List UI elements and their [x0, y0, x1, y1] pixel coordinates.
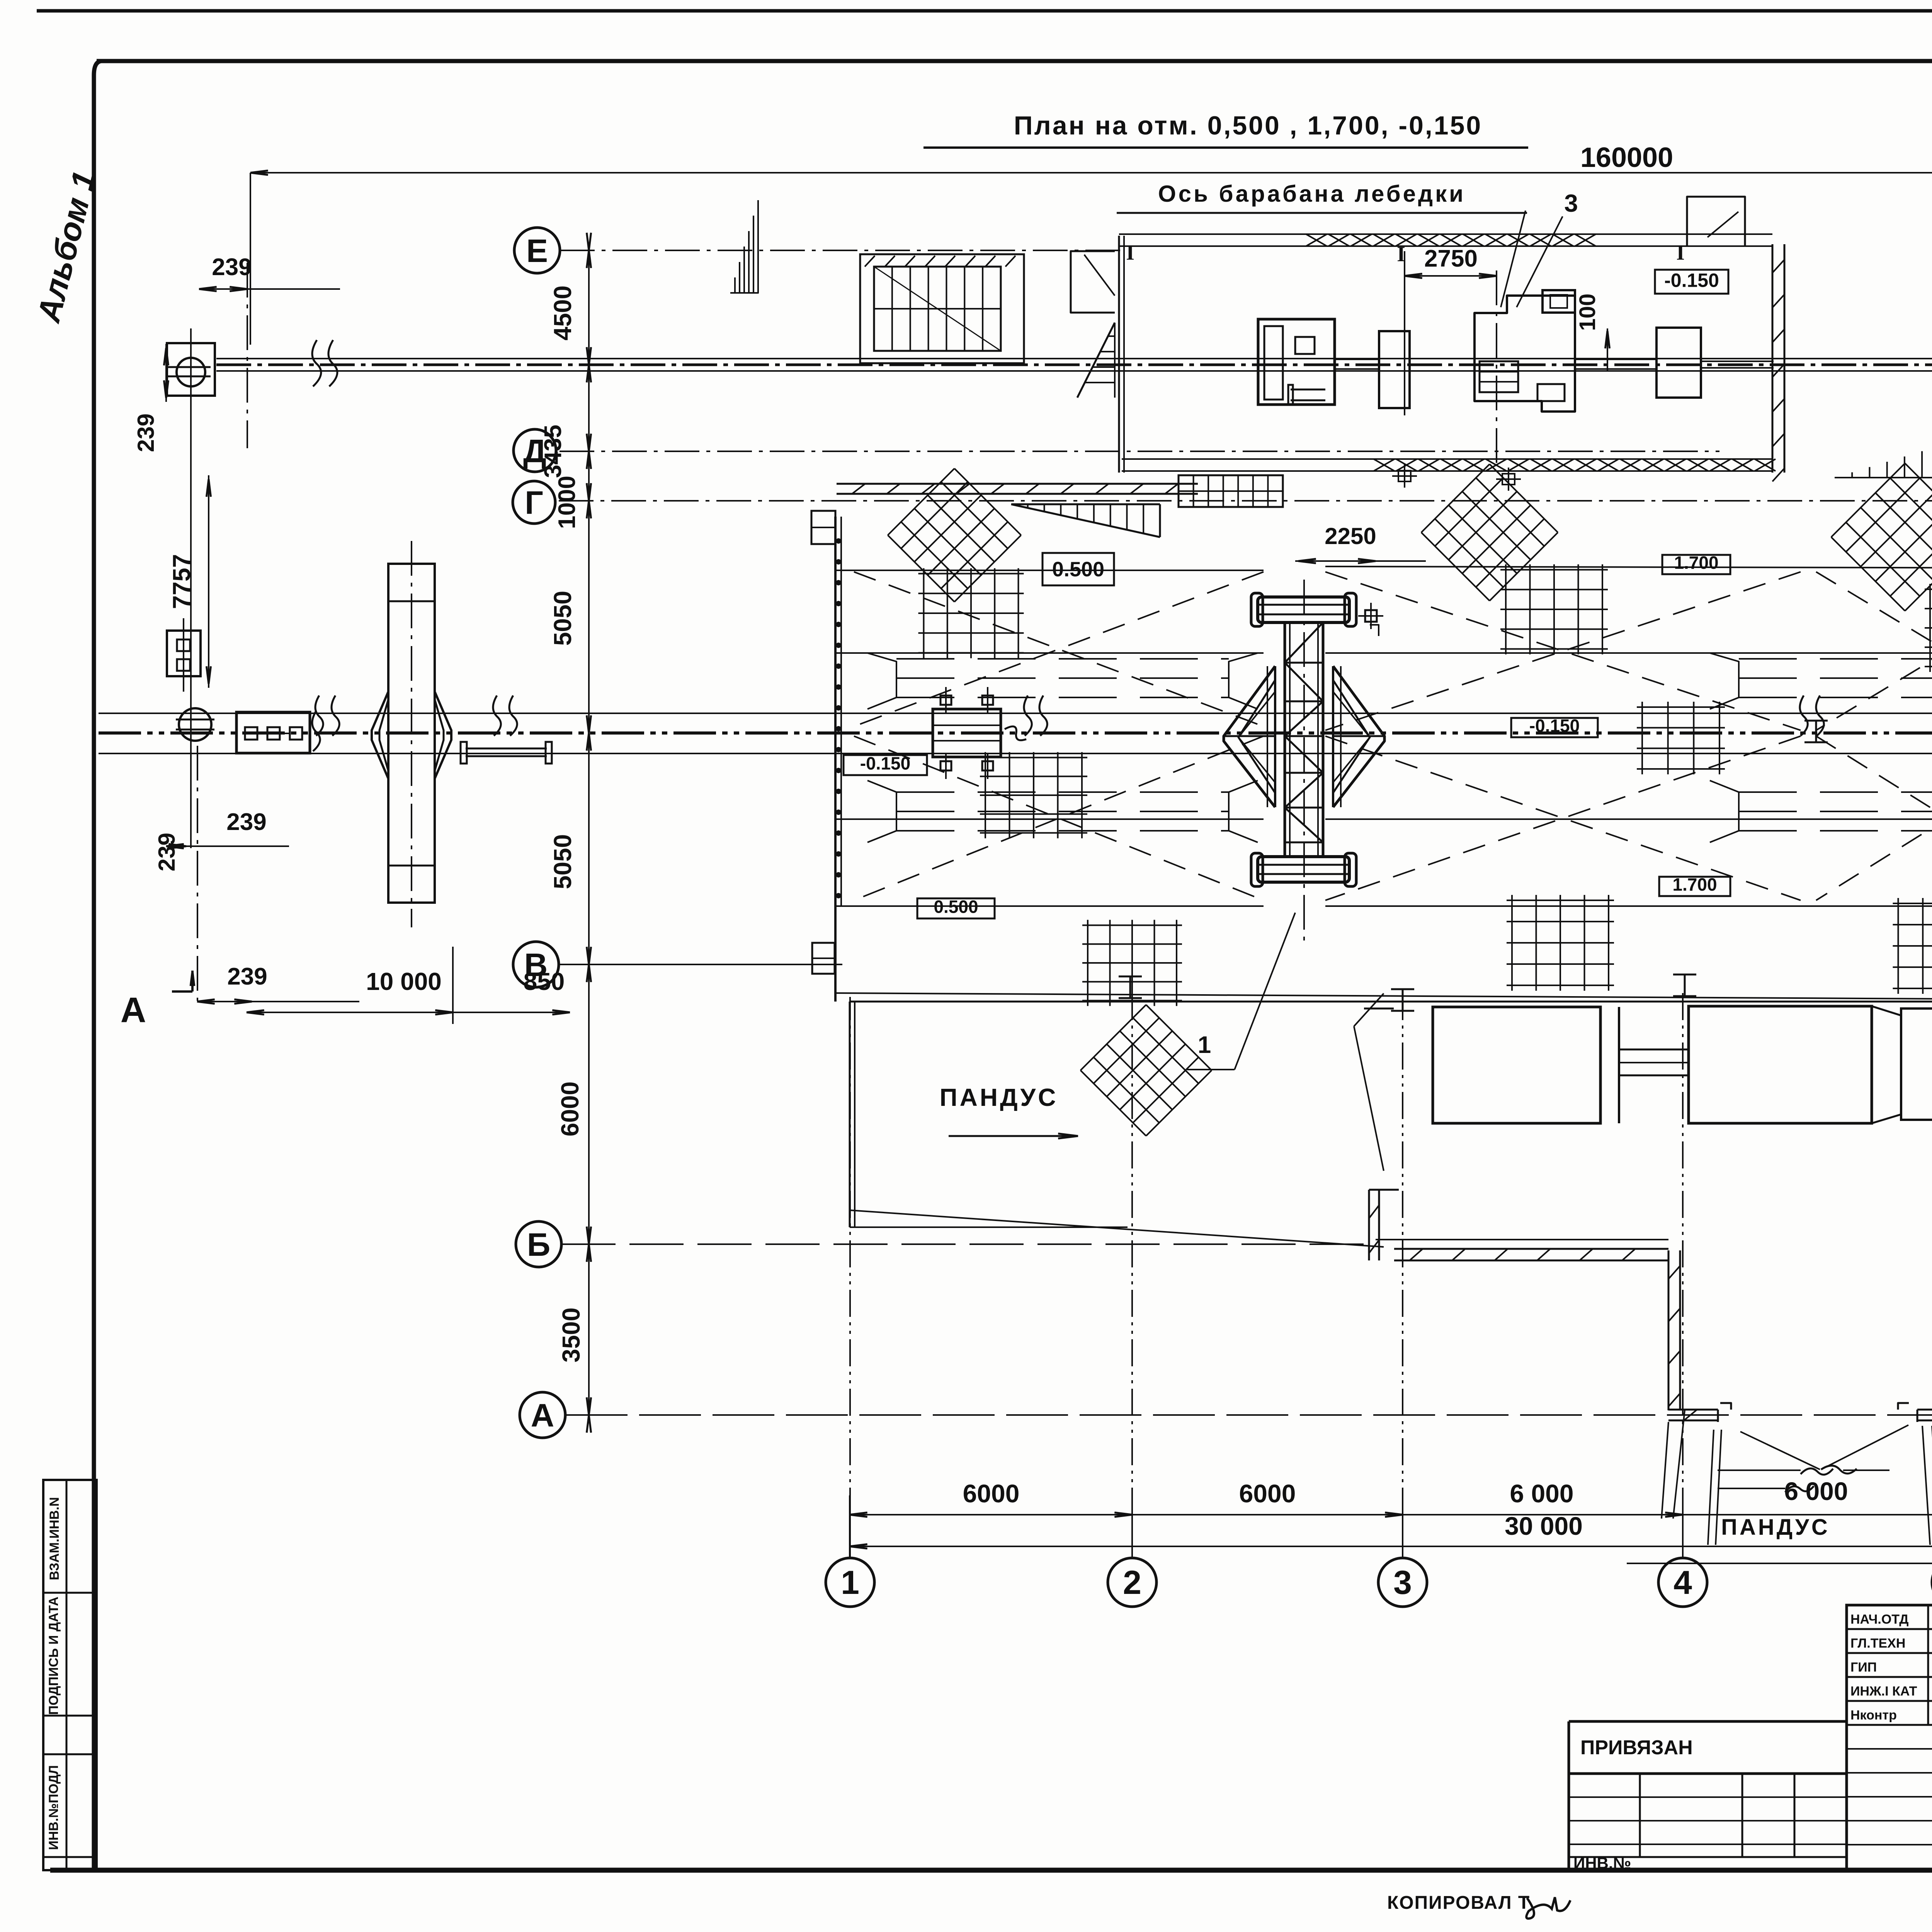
main rail left anchor circle — [179, 708, 211, 741]
svg-text:ГИП: ГИП — [1850, 1660, 1877, 1675]
triangle ramp 1 — [1011, 503, 1160, 505]
svg-text:239: 239 — [154, 833, 180, 871]
axis circle 4 — [1658, 1558, 1707, 1607]
winch house top wall — [1119, 233, 1772, 235]
svg-text:НАЧ.ОТД: НАЧ.ОТД — [1850, 1612, 1908, 1627]
svg-text:30 000: 30 000 — [1505, 1512, 1583, 1540]
grid patch 2 — [980, 752, 1087, 838]
paper top edge — [37, 9, 1932, 13]
grid patch 6 — [1925, 584, 1932, 672]
G axis wall band — [837, 483, 1198, 485]
svg-text:239: 239 — [227, 963, 267, 990]
svg-text:6 000: 6 000 — [1510, 1479, 1573, 1508]
svg-text:3: 3 — [1564, 189, 1578, 217]
truck trailer — [1433, 1007, 1600, 1123]
dim row 6000 x4 — [850, 1514, 1932, 1515]
axis circle Б — [516, 1221, 561, 1267]
dashed cross bay2 upper — [1325, 572, 1801, 730]
svg-text:1.700: 1.700 — [1672, 874, 1717, 895]
tower core — [1284, 622, 1286, 857]
trolley cart — [933, 709, 1001, 757]
svg-text:100: 100 — [1575, 294, 1600, 331]
svg-text:ПОДПИСЬ И ДАТА: ПОДПИСЬ И ДАТА — [46, 1597, 61, 1715]
svg-text:ПАНДУС: ПАНДУС — [1721, 1515, 1830, 1540]
label -0.150 left — [844, 755, 927, 775]
conveyor band lower-left — [896, 791, 1229, 793]
svg-text:3: 3 — [1393, 1564, 1412, 1601]
axis circle В — [513, 942, 559, 987]
svg-text:6000: 6000 — [963, 1479, 1020, 1508]
column marks D axis — [1398, 471, 1411, 481]
shield box left — [236, 712, 310, 753]
bay right corner foot — [1917, 1409, 1932, 1411]
svg-text:-0.150: -0.150 — [1529, 716, 1580, 736]
svg-text:6000: 6000 — [556, 1082, 584, 1136]
dashed cross bay2 lower — [1325, 736, 1801, 900]
svg-text:ГЛ.ТЕХН: ГЛ.ТЕХН — [1850, 1636, 1905, 1651]
svg-text:3435: 3435 — [540, 425, 566, 478]
winch house niche — [1687, 197, 1745, 246]
svg-text:ПРИВЯЗАН: ПРИВЯЗАН — [1580, 1736, 1693, 1759]
small square element left — [811, 511, 835, 544]
stamp strip column — [43, 1480, 97, 1870]
svg-text:ИНЖ.I КАТ: ИНЖ.I КАТ — [1850, 1684, 1917, 1699]
tower bottom bar — [1258, 857, 1349, 882]
column line 2 — [1131, 993, 1133, 1515]
dashed cross bay1 lower — [854, 736, 1264, 900]
svg-text:239: 239 — [212, 254, 252, 281]
grid patch 8 — [1637, 702, 1725, 774]
dashed cross bay3 lower — [1816, 736, 1932, 900]
hall left wall — [834, 517, 837, 1002]
leader 3 slashes — [1501, 211, 1526, 307]
left dimension chain — [588, 250, 590, 1415]
svg-text:4: 4 — [1673, 1564, 1692, 1601]
winch house right wall — [1772, 244, 1774, 473]
buffer bar — [466, 748, 547, 750]
column line 3 — [1402, 1001, 1403, 1515]
pandus left bottom slope — [850, 1210, 1384, 1247]
machine unit B — [1379, 331, 1410, 408]
svg-text:5050: 5050 — [549, 591, 577, 646]
rail break marks upper — [312, 340, 321, 386]
svg-text:850: 850 — [524, 968, 565, 995]
signature table — [1847, 1605, 1932, 1870]
axis line G — [559, 500, 1932, 502]
winch house bottom wall — [1122, 458, 1772, 460]
south wall left segment — [1394, 1248, 1668, 1250]
dashed cross bay1 upper — [854, 572, 1264, 726]
rail break at cart — [1024, 696, 1032, 736]
truck cab — [1872, 1006, 1901, 1123]
label -0.150 top — [1655, 270, 1728, 294]
hall top line — [835, 570, 1264, 571]
crosshatch patch 2 — [1421, 464, 1558, 601]
tower top bar — [1258, 597, 1349, 622]
rail break at shield — [312, 711, 320, 751]
axis circle 3 — [1378, 1558, 1427, 1607]
svg-text:239: 239 — [133, 413, 159, 452]
hall inner lines — [835, 652, 1264, 654]
svg-text:1: 1 — [1198, 1032, 1211, 1058]
V chute left — [1354, 993, 1384, 1026]
label -0.150 mid — [1511, 718, 1598, 737]
stair block upper-left — [860, 254, 1024, 363]
svg-text:10 000: 10 000 — [366, 968, 442, 995]
tower axis — [1303, 580, 1305, 947]
binding box — [1569, 1721, 1847, 1870]
bay left corner foot — [1668, 1409, 1718, 1411]
svg-text:Б: Б — [527, 1226, 550, 1263]
bay bottom chute — [1740, 1432, 1820, 1469]
label 1.700 mid — [1659, 877, 1730, 896]
svg-text:ИНВ.№: ИНВ.№ — [1573, 1854, 1631, 1872]
svg-text:1.700: 1.700 — [1674, 553, 1718, 573]
dock edge double line — [835, 993, 1932, 1002]
svg-text:Е: Е — [526, 233, 548, 269]
svg-text:2750: 2750 — [1424, 245, 1478, 272]
svg-text:4500: 4500 — [549, 286, 577, 340]
triangle ramp courtyard — [1835, 430, 1932, 478]
shaft D-right — [1701, 361, 1774, 362]
shaft C-D — [1575, 359, 1656, 360]
svg-text:-0.150: -0.150 — [1664, 270, 1719, 291]
upper rail left anchor — [167, 343, 215, 396]
svg-text:5050: 5050 — [549, 834, 577, 889]
conveyor band lower-right — [1739, 791, 1932, 793]
svg-text:239: 239 — [226, 809, 266, 835]
svg-text:ПАНДУС: ПАНДУС — [940, 1083, 1058, 1111]
machine unit D — [1656, 328, 1701, 398]
column line 1 — [849, 997, 851, 1515]
winch house left wall — [1118, 236, 1120, 473]
pandus left edge — [849, 1002, 851, 1227]
tower right wing — [1333, 666, 1384, 807]
svg-text:2250: 2250 — [1325, 523, 1376, 549]
rail break marks main left — [315, 696, 323, 736]
axis line B — [561, 1243, 1376, 1245]
binding grid — [1569, 1796, 1847, 1798]
dashed cross bay3 upper — [1816, 572, 1932, 730]
stair strip low — [1179, 475, 1283, 507]
frame border — [94, 61, 101, 1869]
main rail left anchor upper element — [167, 631, 201, 676]
column line 4 — [1682, 989, 1684, 1515]
grid patch 5 — [1507, 895, 1614, 991]
bottom ramp lines — [1708, 1430, 1714, 1545]
winch unit C — [1475, 296, 1575, 412]
shaft A-B — [1335, 359, 1379, 360]
axis circle Е — [514, 228, 560, 273]
axis circle Д — [514, 429, 556, 472]
bottom ramp side flares — [1673, 1410, 1685, 1519]
axis line V — [559, 964, 842, 965]
svg-text:0.500: 0.500 — [934, 896, 978, 917]
svg-text:ВЗАМ.ИНВ.N: ВЗАМ.ИНВ.N — [47, 1497, 62, 1580]
svg-text:3500: 3500 — [557, 1308, 585, 1362]
rail break marks main mid — [1800, 696, 1808, 736]
axis circle 2 — [1108, 1558, 1156, 1607]
dim 160000 — [250, 172, 1932, 173]
axis line D — [560, 451, 1719, 452]
axis circle Г — [513, 481, 555, 524]
main railway line — [99, 713, 1932, 714]
I-beam tick marks — [1119, 976, 1142, 978]
svg-text:6000: 6000 — [1239, 1479, 1296, 1508]
svg-text:0.500: 0.500 — [1052, 558, 1104, 581]
svg-text:2: 2 — [1123, 1564, 1141, 1601]
grid patch 4 — [1500, 565, 1608, 655]
upper winch rail — [216, 358, 1932, 359]
svg-text:Нконтр: Нконтр — [1850, 1708, 1897, 1723]
label 0.500 bottom — [917, 898, 995, 918]
grid patch 1 — [918, 568, 1024, 658]
svg-text:ИНВ.№ПОДЛ: ИНВ.№ПОДЛ — [46, 1765, 61, 1850]
axis line A — [566, 1414, 1932, 1416]
svg-text:КОПИРОВАЛ Т: КОПИРОВАЛ Т — [1387, 1893, 1530, 1913]
dim 10000 850 — [247, 1012, 570, 1013]
label 0.500 top — [1043, 553, 1114, 585]
small ladder wedge left — [730, 200, 758, 293]
crosshatch patch 4 — [1080, 1005, 1211, 1136]
crosshatch patch 1 — [888, 468, 1021, 602]
turntable wheel left — [388, 564, 435, 903]
entry porch — [1071, 251, 1115, 313]
axis line E — [560, 250, 1121, 251]
axis circle 1 — [826, 1558, 874, 1607]
svg-text:Г: Г — [525, 485, 543, 521]
conveyor band upper-left — [896, 658, 1229, 660]
conveyor band upper-right — [1739, 658, 1932, 660]
svg-text:1000: 1000 — [554, 476, 580, 529]
svg-text:I: I — [1676, 241, 1685, 265]
label 1.700 top — [1662, 555, 1730, 574]
crosshatch patch 3 — [1831, 463, 1932, 611]
svg-text:160000: 160000 — [1580, 142, 1673, 173]
grid patch 7 — [1893, 898, 1932, 994]
truck drawbar — [1619, 1049, 1689, 1051]
dim row 30000 — [850, 1546, 1932, 1547]
small square element left2 — [812, 943, 835, 974]
bay door marks — [1720, 1403, 1731, 1410]
truck bed — [1689, 1006, 1872, 1123]
bay left wall — [1668, 1250, 1670, 1410]
svg-text:План на отм. 0,500 , 1,700: План на отм. 0,500 , 1,700, -0,150 — [1014, 111, 1482, 140]
machine unit A — [1258, 319, 1335, 405]
svg-text:А: А — [121, 990, 146, 1030]
svg-text:6 000: 6 000 — [1784, 1477, 1848, 1505]
svg-text:А: А — [531, 1397, 554, 1434]
tower left wing — [1224, 666, 1275, 807]
svg-text:1: 1 — [841, 1564, 859, 1601]
svg-text:I: I — [1126, 241, 1134, 265]
axis circle А — [520, 1392, 565, 1438]
grid patch 3 — [1082, 920, 1182, 1006]
svg-text:Ось барабана лебедки: Ось барабана лебедки — [1158, 181, 1466, 207]
tower gate mark — [1365, 610, 1377, 622]
porch wedge ramp — [1077, 323, 1115, 398]
